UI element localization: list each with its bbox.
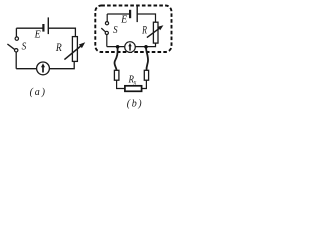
svg-text:(b): (b)	[127, 99, 143, 110]
svg-text:E: E	[120, 14, 128, 26]
svg-text:E: E	[34, 29, 42, 41]
svg-text:x: x	[133, 79, 137, 87]
svg-text:(a): (a)	[30, 87, 47, 98]
svg-text:R: R	[141, 24, 147, 37]
svg-text:S: S	[22, 41, 27, 53]
svg-text:S: S	[113, 24, 118, 36]
svg-text:R: R	[55, 41, 62, 54]
